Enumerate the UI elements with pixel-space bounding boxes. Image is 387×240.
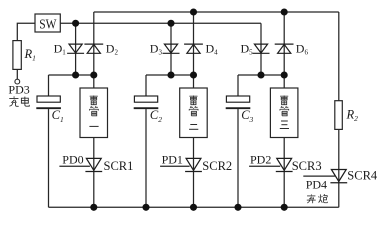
svg-text:R1: R1 — [24, 47, 36, 63]
svg-text:SCR4: SCR4 — [347, 169, 378, 183]
capacitor C1 — [37, 96, 60, 102]
wire detonator3 top lead — [283, 75, 285, 88]
junction dot rail bottom SCR2 — [190, 204, 197, 211]
wire SCR2 gate lead — [160, 165, 190, 167]
diode D5 — [253, 44, 270, 53]
wire detonator3 bottom to SCR3 — [283, 138, 285, 172]
wire bottom rail — [49, 206, 339, 208]
wire R1 bottom to PD3 terminal — [16, 69, 18, 79]
wire SCR1 gate lead — [59, 165, 90, 167]
diode D1 — [67, 44, 84, 53]
wire D4 column — [193, 12, 195, 75]
svg-text:SCR3: SCR3 — [292, 159, 322, 173]
wire D5 column — [260, 23, 262, 75]
wire SW left to R1 column — [17, 23, 35, 40]
svg-text:C2: C2 — [150, 108, 162, 124]
wire node line stage 2 — [146, 74, 194, 76]
svg-text:D6: D6 — [296, 41, 309, 56]
wire C3 top lead — [237, 75, 239, 96]
wire detonator1 bottom to SCR1 — [93, 138, 95, 172]
svg-text:D2: D2 — [106, 41, 119, 56]
capacitor C3 — [226, 96, 249, 102]
wire SCR2 cathode to rail — [193, 171, 195, 207]
resistor R2 — [335, 101, 343, 130]
detonator 3 box 雷管三 — [270, 88, 298, 138]
svg-text:D4: D4 — [206, 41, 219, 56]
wire C3 bottom lead — [237, 109, 239, 207]
capacitor C2 — [134, 96, 157, 102]
svg-text:D5: D5 — [241, 41, 254, 56]
svg-text:C3: C3 — [241, 108, 253, 124]
wire SCR3 gate lead — [249, 165, 280, 167]
junction dot rail A at D4 — [190, 8, 197, 15]
thyristor SCR1 — [85, 158, 102, 171]
wire D3 column — [170, 23, 172, 75]
svg-text:D1: D1 — [54, 41, 67, 56]
resistor R1 — [13, 41, 21, 70]
wire rail B from SW to D5 column — [60, 22, 261, 24]
wire SCR3 cathode to rail — [283, 171, 285, 207]
thyristor SCR4 — [330, 170, 347, 183]
wire detonator2 bottom to SCR2 — [193, 138, 195, 172]
diode D2 — [84, 44, 103, 53]
junction dot node2 right — [190, 71, 197, 78]
svg-text:PD2: PD2 — [250, 152, 271, 166]
junction dot rail bottom C3 — [234, 204, 241, 211]
thyristor SCR2 — [185, 158, 202, 171]
thyristor SCR3 — [276, 158, 293, 171]
switch SW box — [35, 14, 60, 32]
wire SCR4 gate lead — [303, 175, 335, 177]
junction dot rail bottom SCR3 — [281, 204, 288, 211]
wire D2 column — [93, 12, 95, 75]
svg-text:C1: C1 — [52, 108, 64, 124]
junction dot rail bottom SCR1 — [90, 204, 97, 211]
diode D6 — [275, 44, 294, 53]
wire node line stage 1 — [49, 74, 94, 76]
wire SCR4 cathode to rail — [338, 183, 340, 207]
svg-text:PD3: PD3 — [8, 83, 29, 97]
wire D1 column — [75, 23, 77, 75]
wire SCR1 cathode to rail — [93, 171, 95, 207]
svg-text:PD0: PD0 — [62, 152, 83, 166]
diode D4 — [184, 44, 203, 53]
junction dot node3 right — [281, 71, 288, 78]
diode D3 — [163, 44, 180, 53]
label 充电 — [9, 96, 18, 106]
wire right column A to R2 — [338, 12, 340, 101]
junction dot node3 left — [257, 71, 264, 78]
wire top rail A — [94, 11, 339, 13]
wire D6 column — [283, 12, 285, 75]
junction dot rail B at D3 — [167, 20, 174, 27]
svg-text:SW: SW — [39, 17, 56, 32]
wire detonator2 top lead — [193, 75, 195, 88]
wire C2 bottom lead — [145, 109, 147, 207]
wire C1 top lead — [48, 75, 50, 96]
svg-text:PD1: PD1 — [162, 152, 183, 166]
junction dot node1 right — [90, 71, 97, 78]
junction dot rail A at D6 — [281, 8, 288, 15]
terminal PD3 — [15, 79, 20, 84]
wire node line stage 3 — [238, 74, 284, 76]
wire detonator1 top lead — [93, 75, 95, 88]
junction dot rail bottom C2 — [142, 204, 149, 211]
junction dot rail B at D1 — [72, 20, 79, 27]
junction dot node2 left — [167, 71, 174, 78]
wire C2 top lead — [145, 75, 147, 96]
svg-text:D3: D3 — [150, 41, 163, 56]
junction dot node1 left — [72, 71, 79, 78]
detonator 2 box 雷管二 — [180, 88, 208, 138]
label 弃炮 — [307, 194, 316, 203]
wire R2 to SCR4 — [338, 129, 340, 183]
svg-text:SCR2: SCR2 — [202, 159, 232, 173]
detonator 1 box 雷管一 — [80, 88, 108, 138]
wire C1 bottom lead — [48, 109, 50, 207]
svg-text:SCR1: SCR1 — [104, 159, 134, 173]
svg-text:R2: R2 — [346, 107, 359, 123]
svg-text:PD4: PD4 — [306, 177, 327, 191]
